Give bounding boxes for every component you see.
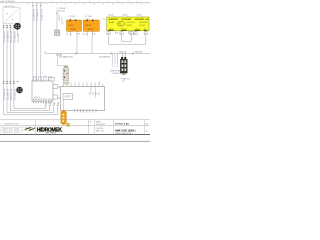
ECU A bottom pins bbox=[34, 101, 52, 103]
svg-text:X4.03: X4.03 bbox=[137, 15, 142, 17]
yellow block bottom pins bbox=[109, 31, 146, 34]
svg-text:0: 0 bbox=[0, 123, 1, 125]
svg-text:9: 9 bbox=[79, 1, 80, 3]
wire W5 short stub bbox=[17, 25, 19, 38]
svg-text:1: 1 bbox=[0, 129, 1, 131]
svg-text:CONN 02A: CONN 02A bbox=[112, 72, 122, 75]
svg-text:C2: C2 bbox=[58, 87, 60, 89]
svg-text:4: 4 bbox=[75, 83, 77, 84]
svg-text:4: 4 bbox=[84, 109, 86, 110]
svg-text:0.5 WhBk 22: 0.5 WhBk 22 bbox=[37, 8, 39, 21]
svg-text:B15: B15 bbox=[58, 102, 60, 105]
title middle texts bbox=[89, 121, 93, 123]
drops to pump connector labels bbox=[113, 54, 118, 65]
svg-text:C1 C2 C3: C1 C2 C3 bbox=[127, 22, 135, 24]
svg-text:6: 6 bbox=[83, 83, 85, 84]
svg-text:2: 2 bbox=[77, 109, 79, 110]
block B bottom pin labels bbox=[74, 109, 98, 110]
connector X9 grid box bbox=[54, 30, 59, 35]
wire W9 bbox=[56, 13, 58, 30]
frame top border line bbox=[0, 2, 150, 4]
pin tag boxes bbox=[107, 32, 148, 35]
svg-text:MOD. SCH: MOD. SCH bbox=[4, 129, 13, 131]
svg-text:CAB SPENC: CAB SPENC bbox=[4, 5, 16, 8]
svg-text:9: 9 bbox=[95, 83, 97, 84]
wire elbow 3 bbox=[10, 106, 49, 110]
svg-text:15: 15 bbox=[136, 1, 138, 3]
svg-text:PRIMA EMISSIONE: PRIMA EMISSIONE bbox=[4, 122, 20, 125]
wire elbow 4 bbox=[14, 106, 46, 108]
svg-text:8: 8 bbox=[96, 109, 98, 110]
wire from K2 to bus bbox=[91, 37, 93, 54]
svg-text:B14: B14 bbox=[54, 102, 56, 105]
svg-text:J2: J2 bbox=[103, 19, 105, 21]
svg-text:1: 1 bbox=[112, 66, 113, 68]
resistor box with wave bbox=[63, 94, 73, 100]
ECU A side connector lower bbox=[53, 95, 58, 99]
svg-text:0.5 GrYe 14: 0.5 GrYe 14 bbox=[10, 31, 13, 43]
svg-text:C3: C3 bbox=[58, 97, 60, 99]
svg-text:X4.02: X4.02 bbox=[123, 15, 128, 17]
svg-text:11: 11 bbox=[98, 1, 100, 3]
svg-text:7: 7 bbox=[87, 83, 89, 84]
svg-text:0.5 GrBk 13: 0.5 GrBk 13 bbox=[7, 31, 10, 43]
ECM J2 yellow block bbox=[107, 17, 149, 31]
svg-text:1: 1 bbox=[74, 109, 76, 110]
unused-area box with diagonal bbox=[3, 5, 20, 24]
block B bottom pins bbox=[75, 111, 97, 113]
svg-text:18: 18 bbox=[146, 130, 148, 132]
ECU A top pins bbox=[34, 79, 52, 82]
frame column numbers bbox=[32, 1, 138, 3]
svg-text:5: 5 bbox=[87, 109, 89, 110]
connector ticks at wire starts bbox=[3, 26, 15, 28]
svg-text:J2.A1B2C3: J2.A1B2C3 bbox=[108, 18, 118, 21]
svg-text:02: 02 bbox=[122, 81, 124, 83]
svg-text:HMK 102B 19000 L: HMK 102B 19000 L bbox=[115, 129, 137, 132]
relay K2 orange bbox=[83, 20, 99, 32]
svg-text:MOD. SCH: MOD. SCH bbox=[4, 132, 13, 134]
page edge line bbox=[0, 140, 150, 142]
svg-text:85: 85 bbox=[78, 34, 80, 36]
revision table rows bbox=[0, 127, 36, 134]
wire pi-link above ECU A bbox=[49, 77, 55, 81]
svg-text:28: 28 bbox=[51, 76, 53, 78]
svg-text:8: 8 bbox=[70, 1, 71, 3]
svg-text:TAV. 7/12: TAV. 7/12 bbox=[96, 130, 104, 133]
wire elbow 2 bbox=[7, 106, 54, 112]
svg-text:0.5 GrRd 12: 0.5 GrRd 12 bbox=[3, 88, 6, 100]
bus slash marks bbox=[75, 52, 134, 55]
svg-text:J2.C1D2E3: J2.C1D2E3 bbox=[121, 19, 131, 21]
circular connector P2 bbox=[16, 87, 23, 94]
svg-text:10: 10 bbox=[89, 1, 91, 3]
ECU A bottom pin labels bbox=[33, 98, 53, 100]
svg-text:2: 2 bbox=[0, 132, 1, 134]
svg-text:10.05.2016: 10.05.2016 bbox=[96, 124, 105, 126]
connector stubs into olive connector bbox=[122, 54, 125, 58]
svg-text:0.5 GrRd 12: 0.5 GrRd 12 bbox=[3, 30, 6, 42]
title block top line bbox=[0, 119, 150, 121]
svg-text:X4.01: X4.01 bbox=[109, 15, 114, 17]
svg-text:86: 86 bbox=[66, 34, 68, 36]
svg-text:86: 86 bbox=[83, 34, 85, 36]
frame bottom line bbox=[0, 134, 150, 136]
svg-text:05 GrWh 21: 05 GrWh 21 bbox=[100, 56, 112, 58]
svg-text:15 4A: 15 4A bbox=[56, 53, 62, 56]
svg-text:12: 12 bbox=[108, 1, 110, 3]
wire W8 bbox=[40, 3, 42, 81]
wire labels left bundle upper bbox=[3, 30, 20, 42]
svg-text:3: 3 bbox=[117, 66, 118, 68]
svg-text:0.5 GrBu 15: 0.5 GrBu 15 bbox=[13, 30, 16, 42]
jumper loop inner bbox=[122, 35, 132, 42]
wire W1 left bundle vertical bbox=[3, 25, 5, 115]
connector X7 orange striped bbox=[61, 100, 66, 125]
svg-text:3: 3 bbox=[71, 83, 73, 84]
block B internal pin leads bbox=[90, 87, 92, 93]
frame column ticks bbox=[28, 3, 141, 4]
title block verticals bbox=[36, 120, 145, 135]
svg-text:0.5 GrYe 14: 0.5 GrYe 14 bbox=[10, 88, 13, 100]
svg-text:8: 8 bbox=[91, 83, 93, 84]
svg-text:F4 900 LS B4: F4 900 LS B4 bbox=[115, 122, 129, 125]
svg-text:A1 A2: A1 A2 bbox=[109, 21, 114, 24]
block B top pin labels bbox=[71, 82, 101, 84]
svg-text:A1: A1 bbox=[88, 92, 91, 94]
wire labels left bundle lower bbox=[3, 88, 16, 100]
yellow chip bbox=[67, 124, 69, 127]
svg-text:A2: A2 bbox=[91, 92, 94, 94]
monitor block B bbox=[61, 87, 105, 111]
splice ticks mid bbox=[3, 82, 19, 84]
svg-text:3: 3 bbox=[80, 109, 82, 110]
svg-text:A3: A3 bbox=[94, 92, 97, 94]
svg-text:2: 2 bbox=[114, 66, 115, 68]
svg-text:12: 12 bbox=[44, 76, 46, 78]
svg-text:12.16: 12.16 bbox=[15, 132, 19, 134]
wire W2 bbox=[6, 25, 8, 113]
cab connector striped bbox=[62, 66, 69, 84]
svg-text:1: 1 bbox=[40, 106, 41, 108]
svg-text:F1 G1: F1 G1 bbox=[140, 25, 145, 27]
relay K1 orange bbox=[67, 20, 82, 32]
svg-text:B13: B13 bbox=[50, 102, 52, 105]
svg-text:85 86: 85 86 bbox=[71, 29, 77, 31]
svg-text:10: 10 bbox=[99, 82, 101, 84]
elbow wires from left bundle bbox=[4, 106, 58, 115]
svg-text:0.5 WhRd 21: 0.5 WhRd 21 bbox=[33, 8, 35, 21]
block B top pins bbox=[63, 84, 103, 87]
svg-text:c1: c1 bbox=[134, 33, 136, 35]
connector X5 body bbox=[120, 57, 127, 75]
block B inner pin labels bbox=[88, 92, 100, 94]
ticks on center wires bbox=[32, 5, 42, 7]
svg-text:0.5 GrBk 13: 0.5 GrBk 13 bbox=[7, 88, 10, 100]
svg-text:7: 7 bbox=[93, 109, 95, 110]
jumper loop outer bbox=[109, 35, 146, 45]
wire W4 bbox=[13, 25, 15, 109]
svg-text:0.5 WhYe 23: 0.5 WhYe 23 bbox=[41, 8, 43, 21]
wire W3 bbox=[9, 25, 11, 111]
wire bus to cab connector bbox=[58, 54, 65, 66]
labels center wires bbox=[33, 8, 43, 21]
svg-text:05 GrWh 1234: 05 GrWh 1234 bbox=[60, 56, 74, 58]
svg-text:D1 D2: D1 D2 bbox=[127, 25, 132, 27]
svg-text:6: 6 bbox=[90, 109, 92, 110]
svg-text:A4: A4 bbox=[97, 92, 100, 94]
svg-text:000261 HRK0137 A: 000261 HRK0137 A bbox=[116, 132, 133, 135]
svg-text:10.16: 10.16 bbox=[15, 129, 19, 131]
svg-text:30 87: 30 87 bbox=[86, 25, 92, 27]
svg-text:a4: a4 bbox=[116, 33, 118, 35]
svg-text:6: 6 bbox=[51, 1, 52, 3]
svg-text:85 86: 85 86 bbox=[88, 29, 94, 31]
title block mid line bbox=[0, 125, 150, 127]
svg-text:K1: K1 bbox=[62, 23, 64, 25]
svg-text:10Gr 45: 10Gr 45 bbox=[135, 51, 143, 53]
svg-text:14: 14 bbox=[127, 1, 129, 3]
circular connector P1 bbox=[14, 23, 21, 30]
svg-text:85: 85 bbox=[94, 34, 96, 36]
svg-text:BOX F12: BOX F12 bbox=[57, 11, 66, 13]
svg-text:DIS.: DIS. bbox=[89, 121, 93, 123]
svg-text:5: 5 bbox=[79, 83, 81, 84]
svg-text:5: 5 bbox=[41, 1, 42, 3]
wire W7 bbox=[36, 3, 38, 81]
elbow labels bbox=[40, 102, 61, 108]
ECU A block bbox=[32, 81, 53, 101]
svg-text:13: 13 bbox=[117, 1, 119, 3]
svg-text:30 87: 30 87 bbox=[69, 25, 75, 27]
svg-text:HMK SERIES: HMK SERIES bbox=[46, 133, 57, 135]
svg-text:E1 E2 F2: E1 E2 F2 bbox=[140, 22, 148, 24]
svg-text:10Gr 44: 10Gr 44 bbox=[119, 51, 127, 53]
svg-text:0.5 GrBu 15: 0.5 GrBu 15 bbox=[13, 88, 16, 100]
svg-text:B12: B12 bbox=[46, 102, 48, 105]
title right texts bbox=[96, 121, 105, 133]
relay bottom pins bbox=[71, 31, 93, 36]
yellow block top labels bbox=[109, 15, 142, 17]
wire W6 center vertical bbox=[32, 3, 34, 81]
svg-text:A3: A3 bbox=[146, 122, 148, 125]
bus wire horizontal bbox=[45, 51, 150, 54]
svg-text:27: 27 bbox=[51, 98, 53, 100]
svg-text:7: 7 bbox=[60, 1, 61, 3]
svg-text:J2.E1F2G3: J2.E1F2G3 bbox=[135, 19, 145, 21]
approval signature bbox=[25, 127, 35, 130]
svg-text:0.5 Gr 16: 0.5 Gr 16 bbox=[17, 33, 20, 43]
ECU A top pin labels bbox=[33, 76, 53, 78]
elbow end ticks bbox=[45, 105, 59, 107]
ECU A side connector upper bbox=[53, 85, 58, 89]
wire from K1 to bus bbox=[76, 37, 78, 54]
